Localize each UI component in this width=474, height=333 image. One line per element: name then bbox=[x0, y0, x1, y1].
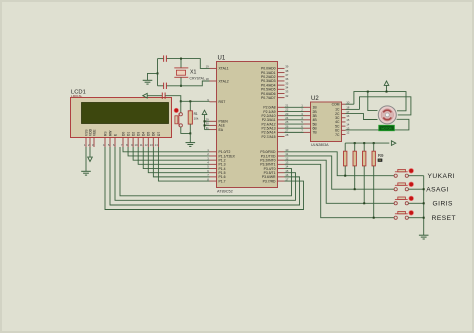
svg-text:P2.7/A15: P2.7/A15 bbox=[262, 135, 276, 139]
ground LCD VSS bbox=[81, 171, 91, 175]
wire top XTAL1 net bbox=[158, 59, 210, 69]
node junction PSEN row bbox=[204, 120, 206, 122]
svg-text:AT89C52: AT89C52 bbox=[217, 190, 233, 194]
resistor R9 labels bbox=[378, 153, 384, 162]
svg-text:11: 11 bbox=[140, 143, 143, 147]
svg-text:12: 12 bbox=[145, 143, 149, 147]
node junction ALE row bbox=[204, 124, 206, 126]
svg-text:YUKARI: YUKARI bbox=[428, 173, 456, 180]
capacitor C2 bbox=[164, 83, 167, 89]
power arrow motor supply bbox=[384, 81, 389, 92]
power arrow EA pull-up bbox=[202, 110, 207, 114]
ground oscillator bbox=[143, 80, 153, 84]
wire R1 bottom to ground bbox=[189, 133, 191, 142]
capacitor C3 bbox=[162, 93, 165, 99]
wire button GIRIS to common bbox=[408, 202, 423, 204]
node junction at C1 right / crystal top bbox=[180, 58, 182, 60]
driver U2 reference label bbox=[311, 96, 319, 102]
svg-text:12: 12 bbox=[346, 131, 350, 135]
button RESET bbox=[394, 211, 413, 220]
svg-text:7B: 7B bbox=[313, 131, 318, 135]
wire rail1 to motor left upper terminal bbox=[368, 92, 378, 111]
microcontroller U1 AT89C52 body bbox=[217, 62, 278, 188]
wire RST rail bbox=[181, 100, 210, 102]
svg-text:D4: D4 bbox=[142, 132, 146, 136]
svg-text:MOTOR: MOTOR bbox=[381, 127, 391, 131]
U1 right pins P0.0-P0.7 P2.0-P2.7 P3.0-P3.7 with numbers bbox=[260, 65, 289, 184]
wire U1 P3.0 to button YUKARI bbox=[285, 152, 395, 176]
wire button RESET to common bbox=[408, 217, 423, 219]
svg-text:VEE: VEE bbox=[92, 129, 96, 136]
node junction resistor 1 bottom bbox=[344, 175, 346, 177]
LCD pin name labels VSS VDD VEE RS RW E D0-D7 bbox=[84, 128, 160, 136]
label RESET bbox=[432, 215, 456, 222]
node RST junction left bbox=[180, 100, 182, 102]
wire bus LCD D0-D7 to U1 P1.0-P1.7 staircase bbox=[123, 147, 210, 181]
svg-text:P1.7: P1.7 bbox=[219, 179, 226, 183]
node RST junction at R1 top bbox=[189, 100, 191, 102]
node junction at crystal bottom bbox=[180, 85, 182, 87]
label ASAGI bbox=[426, 187, 449, 194]
node junction resistor 3 bottom bbox=[363, 202, 365, 204]
label GIRIS bbox=[433, 201, 454, 208]
node junction rail R3 bbox=[363, 142, 365, 144]
svg-text:D2: D2 bbox=[132, 132, 136, 136]
wire motor lower loop to 6C bbox=[346, 119, 409, 130]
svg-text:P0.7/AD7: P0.7/AD7 bbox=[261, 96, 276, 100]
node junction rail R4 bbox=[373, 142, 375, 144]
resistor network R9 (4 resistors) bbox=[344, 143, 376, 218]
svg-text:ASAGI: ASAGI bbox=[426, 187, 449, 194]
node junction common RESET bbox=[423, 217, 425, 219]
svg-text:D3: D3 bbox=[137, 132, 141, 136]
svg-text:7C: 7C bbox=[335, 133, 340, 137]
svg-text:10k: 10k bbox=[194, 116, 199, 120]
node junction R1 bottom bbox=[189, 132, 191, 134]
wire nets LCD RS RW E to U1 P3.4-P3.7 nested routing bbox=[105, 147, 304, 210]
svg-text:28: 28 bbox=[285, 133, 289, 137]
button GIRIS bbox=[394, 196, 413, 205]
power arrow reset supply bbox=[143, 93, 147, 98]
node junction resistor 4 bottom bbox=[373, 217, 375, 219]
button reset (vertical) with red cap bbox=[174, 108, 182, 127]
svg-text:R9: R9 bbox=[378, 153, 384, 158]
U2 value label ULN2803A bbox=[311, 143, 329, 147]
wire EA pull-up vertical bbox=[205, 115, 210, 130]
node junction common GIRIS bbox=[423, 202, 425, 204]
U2 right pins COM 1C-7C bbox=[332, 100, 350, 136]
svg-text:RESET: RESET bbox=[432, 215, 456, 222]
ground buttons common bbox=[419, 235, 429, 239]
svg-text:XTAL1: XTAL1 bbox=[219, 67, 229, 71]
node junction rail R2 bbox=[354, 142, 356, 144]
svg-text:GIRIS: GIRIS bbox=[433, 201, 454, 208]
svg-text:U2: U2 bbox=[311, 96, 319, 102]
label YUKARI bbox=[428, 173, 456, 180]
U1 left pins XTAL1 XTAL2 RST PSEN ALE EA P1.0-P1.7 with numbers bbox=[206, 65, 236, 184]
wire motor rail 1 (COM net) bbox=[346, 92, 407, 111]
wire button ASAGI to common bbox=[408, 188, 423, 190]
wire crystal top branch bbox=[180, 59, 182, 68]
wire motor rail 2 (1C net) bbox=[346, 97, 411, 115]
wire U1 P3.3 to button RESET bbox=[285, 164, 395, 217]
node junction rail1 left coil bbox=[367, 91, 369, 93]
wire crystal bottom branch bbox=[180, 77, 182, 86]
LCD pin stubs 1-14 bbox=[86, 138, 158, 148]
U2 left pins 1B-7B bbox=[301, 104, 317, 135]
svg-text:14: 14 bbox=[155, 143, 159, 147]
LCD pin numbers 1-14 bbox=[84, 143, 158, 147]
power arrow pull-up rail bbox=[391, 141, 395, 146]
wire left oscillator rail bbox=[157, 59, 159, 86]
svg-text:D5: D5 bbox=[147, 132, 151, 136]
motor M1 label plate bbox=[379, 125, 395, 130]
wire VSS to ground bbox=[85, 147, 87, 171]
wire bus U1 P2.0-P2.6 to U2 1B-7B bbox=[285, 107, 304, 132]
wire U1 P3.1 to button ASAGI bbox=[285, 156, 395, 189]
button ASAGI bbox=[394, 182, 413, 191]
motor M1 stepper bbox=[378, 106, 396, 124]
svg-text:D7: D7 bbox=[157, 132, 161, 136]
wire reset button bottom to R1 bottom bbox=[181, 127, 191, 133]
crystal X1 labels bbox=[190, 70, 205, 81]
wire VDD to power bbox=[89, 147, 91, 157]
LCD LCD1 body bbox=[71, 98, 172, 138]
wire button YUKARI to common bbox=[408, 175, 423, 177]
op-amp U1 AT89C52 reference label bbox=[218, 56, 226, 62]
svg-text:COM: COM bbox=[332, 103, 340, 107]
svg-text:RST: RST bbox=[219, 100, 226, 104]
capacitor C1 bbox=[164, 55, 167, 61]
svg-text:D6: D6 bbox=[152, 132, 156, 136]
svg-text:13: 13 bbox=[150, 143, 154, 147]
ground reset network bbox=[186, 143, 196, 147]
wire RST node down to reset button bbox=[180, 101, 182, 113]
svg-text:XTAL2: XTAL2 bbox=[219, 79, 229, 83]
LCD LCD1 reference label bbox=[71, 89, 86, 98]
svg-text:EA: EA bbox=[219, 128, 224, 132]
LCD LCD1 screen bbox=[82, 103, 169, 124]
svg-text:ULN2803A: ULN2803A bbox=[311, 143, 329, 147]
wire to oscillator ground bbox=[148, 73, 158, 80]
svg-text:CRYSTAL: CRYSTAL bbox=[190, 77, 205, 81]
svg-text:10: 10 bbox=[134, 143, 138, 147]
svg-text:D1: D1 bbox=[127, 132, 131, 136]
wire U1 P3.2 to button GIRIS bbox=[285, 160, 395, 203]
node junction common ASAGI bbox=[423, 188, 425, 190]
wire 2C to motor left lower terminal bbox=[346, 114, 378, 120]
node junction rail1 supply bbox=[386, 91, 388, 93]
node junction resistor 2 bottom bbox=[354, 188, 356, 190]
resistor R1 labels bbox=[194, 112, 199, 121]
svg-text:R1: R1 bbox=[194, 112, 198, 116]
power arrow VDD (down) bbox=[88, 157, 93, 161]
svg-text:D0: D0 bbox=[121, 132, 125, 136]
wire bottom XTAL2 net bbox=[158, 81, 210, 86]
driver U2 ULN2803A body bbox=[311, 102, 342, 142]
svg-text:RS: RS bbox=[103, 131, 107, 136]
crystal X1 bbox=[174, 68, 188, 77]
wire reset supply to C3 bbox=[147, 95, 162, 97]
wire C3 to RST node bbox=[165, 96, 181, 102]
svg-text:RW: RW bbox=[108, 130, 112, 136]
resistor R1 bbox=[188, 101, 192, 133]
svg-text:U1: U1 bbox=[218, 56, 226, 62]
wire buttons common vertical to ground bbox=[423, 176, 425, 236]
svg-text:P3.7/RD: P3.7/RD bbox=[263, 179, 276, 183]
wire pull-up power rail bbox=[345, 142, 389, 144]
button YUKARI bbox=[394, 169, 413, 178]
node junction oscillator ground branch bbox=[157, 72, 159, 74]
svg-text:X1: X1 bbox=[190, 70, 196, 76]
U1 value label AT89C52 bbox=[217, 190, 233, 194]
svg-text:32: 32 bbox=[285, 94, 289, 98]
